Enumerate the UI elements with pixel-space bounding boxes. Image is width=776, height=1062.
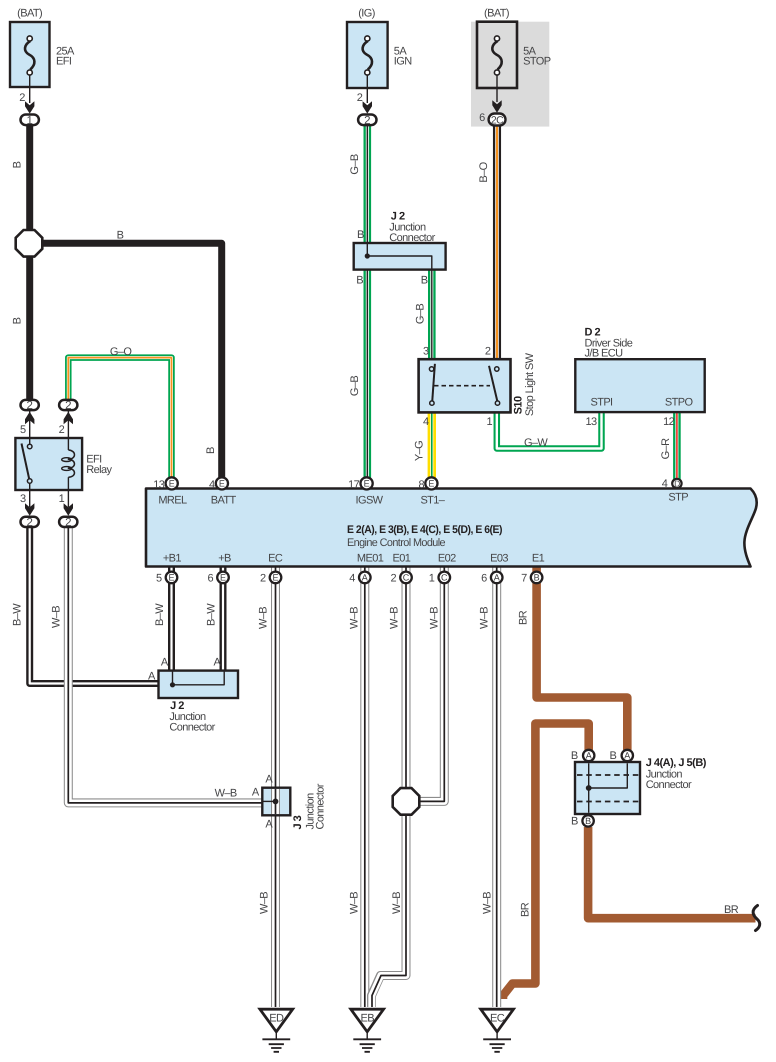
- svg-text:J 2: J 2: [391, 210, 405, 222]
- svg-text:E: E: [364, 479, 370, 489]
- svg-text:2: 2: [260, 572, 266, 584]
- svg-text:E: E: [219, 479, 225, 489]
- svg-text:G–B: G–B: [349, 376, 361, 396]
- driver side J/B ECU D2 box: [575, 359, 704, 412]
- arrow up into relay top-right oval: [64, 412, 73, 424]
- wire W-B from EC through J3 to ED ground: [271, 566, 280, 1007]
- ECM pin circle 17 E IGSW: [361, 477, 373, 489]
- svg-text:B: B: [421, 274, 428, 286]
- connector oval 2C: [489, 114, 506, 126]
- svg-text:Y–G: Y–G: [413, 441, 425, 461]
- svg-text:2: 2: [364, 115, 370, 127]
- splice octagon (top left): [16, 230, 43, 257]
- svg-text:W–B: W–B: [429, 607, 441, 629]
- svg-text:W–B: W–B: [349, 607, 361, 629]
- svg-text:W–B: W–B: [482, 892, 494, 914]
- svg-text:5: 5: [156, 572, 162, 584]
- relay oval 2 (pin3 bottom): [21, 517, 39, 527]
- svg-text:J 4(A), J 5(B): J 4(A), J 5(B): [646, 757, 707, 769]
- svg-text:4: 4: [209, 479, 215, 491]
- svg-text:B: B: [571, 816, 578, 828]
- svg-text:8: 8: [418, 479, 424, 491]
- svg-text:6: 6: [481, 572, 487, 584]
- svg-text:E: E: [272, 573, 278, 583]
- ECM pin circle 4 D STP: [672, 479, 681, 488]
- wire BR from E1 to J4/J5 right pin A: [537, 566, 628, 750]
- S10 left contact: [429, 364, 435, 406]
- fuse 5A IGN symbol: [363, 36, 372, 103]
- svg-text:J 3: J 3: [292, 815, 304, 829]
- ECM pin circle 2 E EC: [270, 572, 282, 584]
- ECM pin circle 7 B E1: [531, 572, 543, 584]
- svg-text:STPI: STPI: [590, 397, 613, 409]
- svg-text:17: 17: [348, 479, 360, 491]
- svg-text:B: B: [356, 274, 363, 286]
- svg-text:B: B: [534, 573, 540, 583]
- svg-text:G–B: G–B: [349, 154, 361, 174]
- svg-text:BR: BR: [520, 902, 532, 917]
- EFI relay switch contact: [22, 411, 33, 507]
- arrow into connector 2 (IG fuse): [363, 101, 372, 113]
- ECM pin circle 2 C E01: [400, 572, 412, 584]
- svg-text:4: 4: [423, 416, 429, 428]
- wire W-B from E03 to EC ground: [492, 566, 501, 1007]
- svg-text:ST1–: ST1–: [420, 494, 445, 506]
- connector oval 2 (IG): [358, 115, 376, 126]
- engine control module box: [146, 489, 757, 567]
- S10 right contact: [489, 366, 500, 406]
- svg-text:+B1: +B1: [163, 553, 182, 565]
- svg-text:12: 12: [663, 416, 675, 428]
- J2 lower internal link: [170, 672, 224, 688]
- svg-text:7: 7: [521, 572, 527, 584]
- J3 wire pass-through: [264, 789, 279, 814]
- svg-text:W–B: W–B: [51, 606, 63, 628]
- svg-text:B: B: [571, 750, 578, 762]
- ground EB: [351, 1009, 384, 1052]
- wire W-B from relay pin1 to J3: [68, 519, 263, 803]
- svg-text:2: 2: [390, 572, 396, 584]
- svg-text:BR: BR: [518, 610, 530, 625]
- ground EC: [481, 1009, 514, 1052]
- svg-text:Connector: Connector: [389, 232, 435, 244]
- svg-text:2: 2: [485, 346, 491, 358]
- svg-text:6: 6: [479, 112, 485, 124]
- svg-text:EC: EC: [490, 1013, 505, 1025]
- svg-text:13: 13: [153, 479, 165, 491]
- svg-text:EB: EB: [360, 1013, 374, 1025]
- wire break symbol at BR right end: [753, 906, 760, 931]
- svg-text:ED: ED: [269, 1013, 284, 1025]
- svg-text:E 2(A), E 3(B), E 4(C), E 5(D): E 2(A), E 3(B), E 4(C), E 5(D), E 6(E): [347, 524, 503, 536]
- wire B-W from +B1 to J2 lower: [168, 566, 175, 672]
- svg-text:2: 2: [26, 400, 32, 412]
- relay oval 2 (pin5 top): [21, 400, 39, 410]
- svg-text:B: B: [585, 816, 591, 826]
- svg-text:1: 1: [429, 572, 435, 584]
- EFI relay coil: [62, 411, 75, 507]
- svg-text:G–R: G–R: [660, 438, 672, 459]
- svg-text:EC: EC: [268, 553, 283, 565]
- wire W-B from E01 to splice: [402, 566, 411, 790]
- J2 upper internal link: [365, 244, 432, 269]
- relay oval 2 (pin2 top): [59, 400, 77, 410]
- svg-text:(BAT): (BAT): [484, 8, 509, 20]
- svg-text:Engine Control Module: Engine Control Module: [347, 537, 445, 549]
- svg-text:1: 1: [59, 493, 65, 505]
- svg-text:2: 2: [65, 517, 71, 529]
- svg-text:B–O: B–O: [478, 161, 490, 182]
- svg-text:G–O: G–O: [110, 346, 132, 358]
- fuse 5A STOP box: [477, 22, 517, 88]
- wire B-W from relay pin3 to J2: [30, 519, 160, 684]
- svg-text:C: C: [441, 573, 448, 583]
- svg-text:B–W: B–W: [154, 603, 166, 626]
- wire B from BAT fuse via splice to relay and BATT pin: [26, 124, 33, 403]
- wire G-W from stop light switch pin1 to STPI: [497, 411, 602, 449]
- svg-text:A: A: [362, 573, 368, 583]
- ECM pin circle 5 E +B1: [166, 572, 178, 584]
- svg-text:EFI: EFI: [56, 56, 72, 68]
- svg-text:5: 5: [20, 424, 26, 436]
- wire B-O from STOP fuse to stop light switch pin2: [493, 126, 501, 361]
- wire W-B from splice to EB ground: [372, 813, 407, 1007]
- svg-text:E01: E01: [393, 553, 411, 565]
- svg-text:J 2: J 2: [170, 700, 184, 712]
- svg-text:IGSW: IGSW: [356, 494, 384, 506]
- svg-text:B–W: B–W: [12, 603, 24, 626]
- wire BR from J4/J5 left pin A to EC ground: [503, 724, 589, 1000]
- svg-text:Stop Light SW: Stop Light SW: [524, 352, 536, 416]
- svg-text:4: 4: [662, 478, 668, 490]
- ECM pin circle 13 E MREL: [166, 477, 178, 489]
- svg-text:B: B: [117, 229, 124, 241]
- svg-text:(BAT): (BAT): [17, 8, 42, 20]
- svg-text:Connector: Connector: [169, 721, 215, 733]
- svg-text:BATT: BATT: [211, 494, 237, 506]
- svg-text:D: D: [674, 479, 680, 489]
- EFI relay box: [15, 438, 82, 490]
- svg-text:STOP: STOP: [523, 56, 551, 68]
- svg-text:B: B: [11, 317, 23, 324]
- svg-text:2: 2: [19, 92, 25, 104]
- ECM pin circle 6 A E03: [491, 572, 503, 584]
- svg-text:2: 2: [65, 400, 71, 412]
- svg-text:B: B: [205, 447, 217, 454]
- svg-text:G–W: G–W: [524, 437, 548, 449]
- ECM pin circle 1 C E02: [439, 572, 451, 584]
- svg-text:MREL: MREL: [158, 494, 187, 506]
- svg-text:W–B: W–B: [349, 892, 361, 914]
- fuse 25A EFI box: [10, 22, 50, 87]
- svg-text:STPO: STPO: [665, 397, 694, 409]
- svg-text:2: 2: [26, 517, 32, 529]
- svg-text:E1: E1: [532, 553, 545, 565]
- fuse 5A STOP symbol: [492, 36, 501, 102]
- svg-text:E02: E02: [438, 553, 456, 565]
- ground ED: [260, 1009, 293, 1052]
- gray highlight box around STOP fuse: [471, 22, 549, 127]
- svg-text:W–B: W–B: [258, 607, 270, 629]
- svg-text:1: 1: [26, 115, 32, 127]
- svg-text:E: E: [169, 479, 175, 489]
- svg-text:B: B: [357, 229, 364, 241]
- arrow into connector 2C (STOP fuse): [492, 100, 501, 113]
- svg-text:IGN: IGN: [394, 56, 412, 68]
- svg-text:W–B: W–B: [389, 607, 401, 629]
- J4/J5 internal links: [577, 763, 639, 813]
- svg-text:1: 1: [486, 416, 492, 428]
- svg-text:4: 4: [349, 572, 355, 584]
- svg-text:E: E: [220, 573, 226, 583]
- ECM pin circle 4 E BATT: [216, 477, 228, 489]
- svg-text:E: E: [428, 479, 434, 489]
- arrow up into relay top-left oval: [25, 412, 34, 424]
- junction connector J2 box (lower): [159, 671, 239, 698]
- svg-text:E03: E03: [490, 553, 508, 565]
- wire W-B from E02 to splice: [419, 566, 444, 801]
- svg-text:+B: +B: [218, 553, 231, 565]
- svg-text:S10: S10: [513, 396, 525, 414]
- svg-text:2C: 2C: [491, 114, 504, 126]
- svg-text:2: 2: [357, 92, 363, 104]
- arrow into connector 1 (BAT fuse): [25, 101, 34, 113]
- junction connector J4/J5 box: [575, 762, 640, 814]
- wire B-W from +B to J2 lower: [220, 566, 227, 672]
- J4/J5 pin circle A right: [622, 750, 633, 761]
- ECM pin circle 8 E ST1-: [425, 477, 437, 489]
- svg-text:13: 13: [585, 416, 597, 428]
- svg-text:Relay: Relay: [86, 464, 112, 476]
- svg-text:W–B: W–B: [259, 892, 271, 914]
- svg-text:C: C: [403, 573, 410, 583]
- connector oval 1: [21, 115, 39, 126]
- S10 dashed link: [434, 385, 490, 387]
- svg-text:3: 3: [20, 493, 26, 505]
- arrow down into relay bottom-right oval: [64, 503, 73, 516]
- wire G-O from relay coil to MREL: [68, 358, 171, 481]
- svg-text:W–B: W–B: [391, 892, 403, 914]
- svg-text:3: 3: [423, 346, 429, 358]
- ECM pin circle 4 A ME01: [359, 572, 371, 584]
- ECM pin circle 6 E +B: [217, 572, 229, 584]
- svg-text:W–B: W–B: [215, 788, 237, 800]
- wire G-R from STPO to STP: [673, 411, 681, 480]
- fuse 25A EFI symbol: [25, 36, 34, 103]
- fuse 5A IGN box: [347, 22, 388, 88]
- J4/J5 pin circle A left: [583, 750, 594, 761]
- svg-text:ME01: ME01: [357, 553, 384, 565]
- svg-text:Connector: Connector: [315, 783, 327, 829]
- svg-text:STP: STP: [668, 492, 688, 504]
- stop light switch S10 box: [419, 359, 511, 412]
- wire W-B from ME01 to EB ground: [360, 566, 369, 1007]
- svg-text:A: A: [586, 751, 592, 761]
- J4/J5 pin circle B bottom: [582, 815, 593, 826]
- svg-text:BR: BR: [724, 904, 739, 916]
- svg-text:B–W: B–W: [206, 603, 218, 626]
- junction connector J3 box: [262, 788, 290, 816]
- splice octagon (E01/E02): [393, 788, 420, 815]
- wire G-B branch from J2 to stop light switch pin3: [428, 268, 436, 361]
- svg-text:2: 2: [59, 424, 65, 436]
- arrow down into relay bottom-left oval: [25, 503, 34, 516]
- svg-text:G–B: G–B: [415, 304, 427, 324]
- svg-text:E: E: [168, 573, 174, 583]
- svg-text:J/B ECU: J/B ECU: [585, 348, 624, 360]
- wire G-B from IG fuse to IGSW: [363, 126, 371, 481]
- svg-text:A: A: [624, 751, 630, 761]
- wire BR from J4/J5 pin B to right edge: [588, 827, 755, 918]
- svg-text:W–B: W–B: [479, 607, 491, 629]
- svg-text:B: B: [11, 161, 23, 168]
- svg-text:B: B: [609, 750, 616, 762]
- relay oval 2 (pin1 bottom): [59, 517, 77, 527]
- svg-text:Connector: Connector: [646, 779, 692, 791]
- wire Y-G from stop light switch pin4 to ST1-: [428, 411, 436, 481]
- svg-text:(IG): (IG): [358, 8, 375, 20]
- svg-text:6: 6: [207, 572, 213, 584]
- svg-text:A: A: [494, 573, 500, 583]
- junction connector J2 box (upper): [354, 243, 446, 270]
